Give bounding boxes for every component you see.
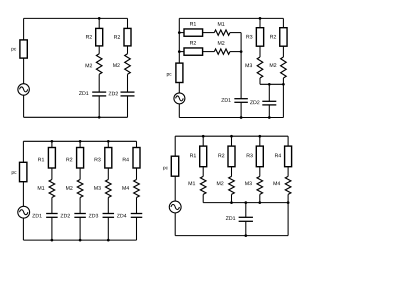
label ZD2 (circuit 3) xyxy=(61,214,70,218)
wire: circuit 2 left wire upper segment xyxy=(178,18,180,63)
junction: circuit 3 top rail node 1 xyxy=(51,140,54,143)
label R4 (circuit 4) xyxy=(275,154,281,158)
wire: circuit 2 right branch lower segment xyxy=(282,78,284,118)
wire: circuit 2 bottom rail xyxy=(179,117,283,119)
wire: circuit 2 right branch top lead xyxy=(282,18,284,27)
wire: circuit 3 branch 2 bottom lead xyxy=(79,217,81,240)
wire: circuit 4 branch 2 M bottom lead xyxy=(231,194,233,202)
junction: circuit 2 right branch joining node xyxy=(282,83,285,86)
resistor R2 (circuit 3) xyxy=(77,148,84,169)
wire: circuit 3 branch 2 R-M lead xyxy=(79,168,81,180)
wire: circuit 3 branch 4 bottom lead xyxy=(136,217,138,240)
capacitor ZD2 (circuit 1) xyxy=(121,92,135,96)
resistor R1 (circuit 2) xyxy=(184,29,203,36)
wire: circuit 4 branch 3 M bottom lead xyxy=(259,194,261,202)
wire: circuit 2 right R2-M2 lead xyxy=(282,46,284,57)
capacitor ZD1 (circuit 1) xyxy=(92,92,106,96)
label pi (circuit 3) xyxy=(12,171,17,175)
label M3 (circuit 2) xyxy=(246,63,253,67)
capacitor ZD4 (circuit 3) xyxy=(131,214,143,218)
capacitor ZD1 (circuit 2) xyxy=(234,99,248,103)
capacitor ZD2 (circuit 3) xyxy=(74,214,86,218)
junction: circuit 2 left wire row 2 node xyxy=(178,50,181,53)
source internal resistance pi (circuit 2) xyxy=(176,63,183,82)
source internal resistance pi (circuit 4) xyxy=(171,156,178,176)
junction: circuit 4 bottom rail ZD1 node xyxy=(244,234,247,237)
resistor R3 (circuit 3) xyxy=(105,148,112,169)
AC source G1 (circuit 1) xyxy=(18,84,30,96)
wire: circuit 2 row 1 R1-M1 lead xyxy=(203,32,215,34)
wire: circuit 3 branch 1 R-M lead xyxy=(51,168,53,180)
wire: circuit 2 ZD2 upper lead xyxy=(268,84,270,101)
capacitor ZD2 (circuit 2) xyxy=(262,101,276,105)
wire: circuit 1 bottom rail xyxy=(24,116,128,118)
resistor R3 (circuit 2) xyxy=(256,28,263,47)
AC source G1 (circuit 3) xyxy=(18,206,30,218)
wire: circuit 3 left wire lower segment xyxy=(22,218,24,240)
resistor M1 zigzag (circuit 2) xyxy=(214,30,230,35)
label M1 (circuit 2) xyxy=(218,22,225,26)
node: circuit 1 top rail wire xyxy=(24,17,128,19)
wire: circuit 4 bottom rail xyxy=(175,235,288,237)
label R1 (circuit 4) xyxy=(190,154,196,158)
wire: circuit 3 branch 1 top lead xyxy=(51,141,53,147)
resistor M2 zigzag (circuit 1 branch B) xyxy=(125,54,131,75)
label M2 (circuit 2 right branch) xyxy=(270,63,277,67)
wire: circuit 2 top rail xyxy=(179,17,283,19)
label ZD1 (circuit 4) xyxy=(226,216,235,220)
label M3 (circuit 3) xyxy=(94,186,101,190)
wire: circuit 1 branch B bottom lead xyxy=(127,96,129,117)
wire: circuit 2 ZD2 lower lead xyxy=(268,105,270,118)
label R2 (circuit 4) xyxy=(218,154,224,158)
wire: circuit 4 branch 3 top lead xyxy=(259,136,261,146)
label M2 (circuit 1 branch A) xyxy=(86,64,93,68)
label R4 (circuit 3) xyxy=(123,158,129,162)
AC source G1 (circuit 2) xyxy=(174,93,185,104)
label ZD2 (circuit 1) xyxy=(109,92,118,96)
wire: circuit 4 branch 1 M bottom lead xyxy=(202,194,204,202)
label R3 (circuit 3) xyxy=(95,158,101,162)
wire: circuit 1 branch B R2-M2 lead xyxy=(127,46,129,54)
junction: circuit 1 branch A bottom node xyxy=(98,116,101,119)
label ZD2 (circuit 2) xyxy=(250,100,259,104)
resistor M3 zigzag (circuit 4) xyxy=(257,176,263,194)
wire: circuit 2 R3 branch top lead xyxy=(259,18,261,27)
label R2 (circuit 2 row 2) xyxy=(190,41,196,45)
wire: circuit 2 middle vertical lower xyxy=(240,102,242,117)
resistor R2 (circuit 2 right branch) xyxy=(280,28,287,47)
wire: circuit 4 right vertical to bottom rail xyxy=(287,203,289,236)
wire: circuit 4 branch 4 M bottom lead xyxy=(287,194,289,202)
resistor R1 (circuit 4) xyxy=(200,146,207,167)
wire: circuit 2 row 1 right lead xyxy=(230,32,241,34)
wire: circuit 2 R3-M3 lead xyxy=(259,46,261,57)
label R1 (circuit 2) xyxy=(190,22,196,26)
wire: circuit 3 branch 1 M-ZD lead xyxy=(51,198,53,214)
junction: circuit 2 bottom rail ZD1 node xyxy=(240,116,243,119)
source internal resistance pi (circuit 3) xyxy=(20,162,27,181)
AC source G1 (circuit 4) xyxy=(169,201,181,213)
junction: circuit 3 top rail node 2 xyxy=(79,140,82,143)
junction: circuit 3 bottom rail node 1 xyxy=(51,239,54,242)
label M4 (circuit 4) xyxy=(274,182,281,186)
wire: circuit 1 left wire upper segment xyxy=(23,18,25,40)
junction: circuit 4 middle rail node branch 4 xyxy=(287,201,290,204)
wire: circuit 2 M3/M2 bottom joining wire xyxy=(260,83,283,85)
resistor M2 zigzag (circuit 4) xyxy=(229,176,235,194)
label ZD1 (circuit 1) xyxy=(79,91,88,95)
label R2 (circuit 3) xyxy=(66,158,72,162)
wire: circuit 4 left wire lower segment xyxy=(174,213,176,236)
wire: circuit 2 left wire lower segment xyxy=(178,104,180,118)
resistor R4 (circuit 4) xyxy=(285,146,292,167)
wire: circuit 4 branch 2 top lead xyxy=(231,136,233,146)
resistor M1 zigzag (circuit 3) xyxy=(49,180,55,198)
label R3 (circuit 2) xyxy=(246,35,252,39)
junction: circuit 3 bottom rail node 2 xyxy=(79,239,82,242)
resistor M3 zigzag (circuit 2) xyxy=(257,57,263,78)
label ZD3 (circuit 3) xyxy=(89,214,98,218)
wire: circuit 2 row 2 R2-M2 lead xyxy=(203,51,215,53)
label M2 (circuit 4) xyxy=(217,181,224,185)
junction: circuit 3 bottom rail node 3 xyxy=(107,239,110,242)
resistor R3 (circuit 4) xyxy=(256,146,263,167)
capacitor ZD3 (circuit 3) xyxy=(103,214,115,218)
resistor M2 zigzag (circuit 3) xyxy=(77,180,83,198)
capacitor ZD1 (circuit 4) xyxy=(239,217,253,221)
wire: circuit 1 branch A R2-M2 lead xyxy=(98,46,100,54)
label ZD4 (circuit 3) xyxy=(117,214,127,218)
label pi (circuit 4) xyxy=(163,167,168,171)
label R2 (circuit 2 right branch) xyxy=(270,35,276,39)
wire: circuit 3 top rail xyxy=(23,140,136,142)
junction: circuit 1 branch A top node xyxy=(98,17,101,20)
resistor R2 (circuit 4) xyxy=(228,146,235,167)
wire: circuit 4 branch 1 top lead xyxy=(202,136,204,146)
label M3 (circuit 4) xyxy=(245,181,252,185)
wire: circuit 3 branch 4 top lead xyxy=(136,141,138,147)
junction: circuit 2 middle vertical row 2 node xyxy=(240,50,243,53)
wire: circuit 4 middle rail xyxy=(203,202,288,204)
junction: circuit 4 top rail node 3 xyxy=(258,135,261,138)
label M2 (circuit 3) xyxy=(66,186,73,190)
wire: circuit 1 left wire middle segment xyxy=(23,58,25,84)
resistor M4 zigzag (circuit 3) xyxy=(134,180,140,198)
label M2 (circuit 2 row 2) xyxy=(218,41,225,45)
label M2 (circuit 1 branch B) xyxy=(113,63,120,67)
resistor R1 (circuit 3) xyxy=(48,148,55,169)
label R1 (circuit 3) xyxy=(38,158,44,162)
junction: circuit 4 top rail node 1 xyxy=(202,135,205,138)
resistor M2 zigzag (circuit 1 branch A) xyxy=(96,54,102,75)
wire: circuit 2 row 2 left lead xyxy=(179,51,184,53)
wire: circuit 4 branch 4 R-M lead xyxy=(287,167,289,177)
label R3 (circuit 4) xyxy=(247,154,253,158)
label ZD1 (circuit 2) xyxy=(221,98,230,102)
junction: circuit 4 top rail node 2 xyxy=(230,135,233,138)
wire: circuit 4 branch 4 top lead xyxy=(287,136,289,146)
resistor M2 zigzag (circuit 2 right branch) xyxy=(281,57,287,78)
wire: circuit 3 left wire upper segment xyxy=(22,141,24,162)
wire: circuit 1 branch A M2-ZD1 lead xyxy=(98,74,100,92)
junction: circuit 4 middle rail node branch 2 xyxy=(230,201,233,204)
wire: circuit 3 branch 2 M-ZD lead xyxy=(79,198,81,214)
label pi (circuit 1) xyxy=(12,48,17,52)
junction: circuit 4 middle rail ZD1 tap node xyxy=(244,201,247,204)
resistor M1 zigzag (circuit 4) xyxy=(200,176,206,194)
junction: circuit 3 top rail node 3 xyxy=(107,140,110,143)
wire: circuit 4 branch 3 R-M lead xyxy=(259,167,261,177)
wire: circuit 3 left wire middle segment xyxy=(22,182,24,207)
resistor M3 zigzag (circuit 3) xyxy=(106,180,112,198)
wire: circuit 3 bottom rail xyxy=(23,239,136,241)
wire: circuit 3 branch 3 top lead xyxy=(107,141,109,147)
wire: circuit 4 branch 1 R-M lead xyxy=(202,167,204,177)
wire: circuit 1 branch A top lead xyxy=(98,18,100,28)
wire: circuit 2 middle vertical upper xyxy=(240,33,242,99)
wire: circuit 4 branch 2 R-M lead xyxy=(231,167,233,177)
capacitor ZD1 (circuit 3) xyxy=(46,214,58,218)
label R2 (circuit 1 branch B) xyxy=(114,35,120,39)
wire: circuit 2 M3 bottom lead xyxy=(259,78,261,84)
wire: circuit 3 branch 3 M-ZD lead xyxy=(107,198,109,214)
resistor R4 (circuit 3) xyxy=(133,148,140,169)
wire: circuit 3 branch 4 M-ZD lead xyxy=(136,198,138,214)
wire: circuit 2 row 1 left lead xyxy=(179,32,184,34)
junction: circuit 4 middle rail node branch 3 xyxy=(258,201,261,204)
label M4 (circuit 3) xyxy=(122,186,129,190)
wire: circuit 3 branch 3 bottom lead xyxy=(107,217,109,240)
junction: circuit 2 left wire row 1 node xyxy=(178,31,181,34)
resistor M2 zigzag (circuit 2 row 2) xyxy=(214,49,230,54)
resistor R2 (circuit 2 row 2) xyxy=(184,48,203,55)
source internal resistance pi (circuit 1) xyxy=(20,40,27,58)
wire: circuit 4 left wire middle segment xyxy=(174,176,176,201)
label M1 (circuit 4) xyxy=(189,182,196,186)
wire: circuit 1 branch B top lead xyxy=(127,18,129,28)
wire: circuit 1 branch B M2-ZD2 lead xyxy=(127,74,129,92)
wire: circuit 1 left wire lower segment xyxy=(23,95,25,117)
wire: circuit 3 branch 2 top lead xyxy=(79,141,81,147)
resistor M4 zigzag (circuit 4) xyxy=(285,176,291,194)
wire: circuit 4 ZD1 upper lead xyxy=(245,203,247,218)
wire: circuit 3 branch 4 R-M lead xyxy=(136,168,138,180)
wire: circuit 4 top rail xyxy=(175,135,288,137)
wire: circuit 4 left wire upper segment xyxy=(174,136,176,156)
wire: circuit 2 left wire middle segment xyxy=(178,83,180,93)
label R2 (circuit 1 branch A) xyxy=(86,35,92,39)
junction: circuit 2 ZD2 tap node xyxy=(268,83,271,86)
resistor R2 (circuit 1 branch B) xyxy=(124,28,131,46)
wire: circuit 1 branch A bottom lead xyxy=(98,96,100,117)
junction: circuit 2 R3 top rail node xyxy=(259,17,262,20)
label M1 (circuit 3) xyxy=(38,186,45,190)
resistor R2 (circuit 1 branch A) xyxy=(96,28,103,46)
wire: circuit 2 row 2 right lead xyxy=(230,51,241,53)
junction: circuit 2 bottom rail ZD2 node xyxy=(268,116,271,119)
wire: circuit 3 branch 3 R-M lead xyxy=(107,168,109,180)
label pi (circuit 2) xyxy=(167,73,172,77)
wire: circuit 3 branch 1 bottom lead xyxy=(51,217,53,240)
label ZD1 (circuit 3) xyxy=(32,214,41,218)
wire: circuit 4 ZD1 lower lead xyxy=(245,221,247,235)
